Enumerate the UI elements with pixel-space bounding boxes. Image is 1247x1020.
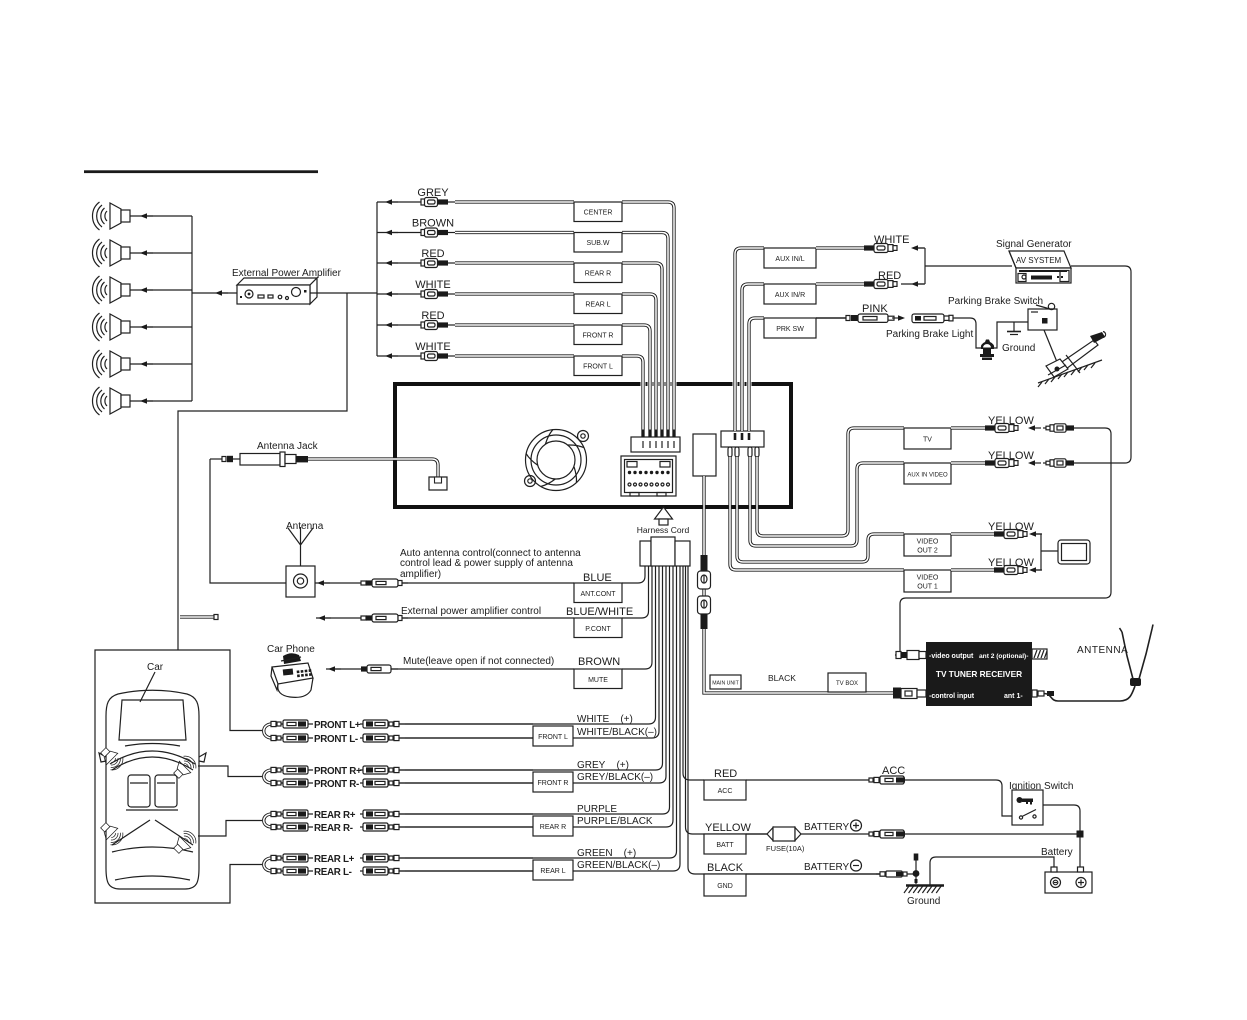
- cable VIDEO OUT 1 box to jack: [951, 568, 994, 571]
- battery: [1045, 867, 1092, 893]
- wire SUB.W branch: [377, 232, 421, 234]
- parking brake switch: [1028, 303, 1057, 330]
- cable REAR R box to head unit: [622, 263, 662, 437]
- harness wire BLACK: [688, 566, 886, 874]
- svg-text:-control input: -control input: [929, 693, 975, 700]
- wire REAR R-: [272, 826, 313, 828]
- connector PRONT L+ right: [363, 720, 405, 728]
- cable head unit to AUX IN VIDEO: [750, 457, 904, 546]
- svg-text:WHITE (+): WHITE (+): [577, 714, 633, 725]
- cable head unit to VIDEO OUT 1: [730, 457, 904, 570]
- RCA jack GREY (CENTER): [421, 198, 455, 207]
- svg-text:ANTENNA: ANTENNA: [1077, 645, 1128, 656]
- plug YELLOW male (TV): [1043, 424, 1074, 432]
- svg-text:External power amplifier contr: External power amplifier control: [401, 606, 541, 617]
- svg-text:BATTERY: BATTERY: [804, 822, 850, 833]
- svg-text:OUT 2: OUT 2: [917, 548, 938, 555]
- wire REAR L-: [272, 870, 313, 872]
- box FRONT R: [533, 772, 573, 792]
- car speaker: [170, 828, 199, 857]
- svg-text:FUSE(10A): FUSE(10A): [766, 844, 805, 853]
- svg-text:GND: GND: [717, 883, 733, 890]
- box REAR L: [533, 860, 573, 880]
- svg-text:FRONT L: FRONT L: [583, 364, 613, 371]
- Parking Brake Light connector: [912, 314, 953, 323]
- svg-text:TV: TV: [923, 437, 932, 444]
- box MUTE: [574, 669, 622, 689]
- arrow BROWN (to car phone): [328, 666, 341, 672]
- arrow AUX R: [911, 281, 924, 287]
- wire AUX L to bus: [915, 247, 925, 249]
- wire ACC: [746, 780, 1012, 816]
- svg-text:Antenna: Antenna: [286, 521, 324, 532]
- speaker 2: [93, 239, 131, 267]
- svg-text:Signal Generator: Signal Generator: [996, 239, 1072, 250]
- svg-text:WHITE: WHITE: [415, 279, 450, 291]
- jack YELLOW (VIDEO OUT 2): [994, 530, 1027, 539]
- connector PRONT R+ left: [271, 766, 308, 774]
- brake lamp bulb: [980, 340, 994, 361]
- svg-text:REAR R-: REAR R-: [314, 823, 353, 834]
- cable FRONT L jack to box: [455, 354, 574, 357]
- harness wire BLUE: [622, 566, 645, 583]
- wire PRONT R+: [272, 769, 313, 771]
- svg-text:BROWN: BROWN: [578, 656, 620, 668]
- cable CENTER box to head unit: [622, 202, 674, 437]
- top rule line: [84, 170, 318, 173]
- antenna jack: [210, 452, 308, 467]
- svg-text:YELLOW: YELLOW: [988, 557, 1034, 569]
- main unit cable port: [693, 434, 716, 476]
- svg-text:CENTER: CENTER: [584, 210, 613, 217]
- svg-text:REAR L: REAR L: [585, 302, 610, 309]
- antenna box: [286, 566, 315, 597]
- wire lamp to switch/ground: [993, 322, 1028, 348]
- arrow OUT2: [1029, 531, 1042, 537]
- RCA jack WHITE (REAR L): [421, 290, 455, 299]
- svg-text:Ground: Ground: [907, 896, 940, 907]
- connector REAR L- right: [363, 867, 405, 875]
- antenna receptacle: [429, 477, 447, 490]
- handbrake lever: [1038, 332, 1106, 388]
- box FRONT R: [574, 325, 622, 345]
- pair curve FRONT R: [264, 770, 272, 783]
- wire crossings over chassis border: [643, 378, 749, 393]
- wire AV SYSTEM loop to AUX IN VIDEO: [1071, 266, 1131, 463]
- harness wire GREEN-: [405, 566, 680, 871]
- svg-text:amplifier): amplifier): [400, 569, 441, 580]
- speaker 6: [93, 387, 131, 415]
- RCA trunk connector block: [631, 430, 680, 453]
- svg-text:AUX IN/R: AUX IN/R: [775, 292, 805, 299]
- wire REAR R+: [272, 813, 313, 815]
- harness cord arrow: [655, 507, 673, 525]
- car speaker: [170, 753, 199, 782]
- box GND: [704, 874, 746, 896]
- wire GND: [746, 873, 916, 875]
- svg-text:PURPLE: PURPLE: [577, 804, 617, 815]
- connector REAR L+ left: [271, 854, 308, 862]
- connector REAR L+ right: [363, 854, 405, 862]
- svg-text:Harness Cord: Harness Cord: [637, 525, 690, 535]
- wire AUX IN/R to head unit: [742, 284, 764, 431]
- car speaker: [97, 819, 126, 848]
- video output plug: [895, 651, 926, 660]
- svg-text:PRONT R-: PRONT R-: [314, 779, 359, 790]
- car wiring enclosure: [95, 650, 262, 903]
- svg-text:ACC: ACC: [718, 788, 733, 795]
- svg-text:FRONT R: FRONT R: [583, 333, 614, 340]
- svg-text:Parking Brake Switch: Parking Brake Switch: [948, 296, 1043, 307]
- svg-text:VIDEO: VIDEO: [917, 575, 939, 582]
- wire speaker 4 to bus: [130, 326, 192, 328]
- ignition switch: [1012, 790, 1043, 825]
- svg-text:PRONT R+: PRONT R+: [314, 766, 362, 777]
- junction dot: [1077, 831, 1084, 838]
- arrow PINK: [892, 315, 905, 321]
- wire jack to antenna box: [210, 459, 286, 583]
- wire PRONT R-: [272, 782, 313, 784]
- wire REAR R branch: [377, 262, 421, 264]
- svg-text:Ground: Ground: [1002, 343, 1035, 354]
- barrel connector B: [698, 596, 711, 614]
- pointer line: [1036, 305, 1050, 309]
- svg-text:GREY/BLACK(–): GREY/BLACK(–): [577, 772, 653, 783]
- svg-text:FRONT L: FRONT L: [538, 734, 568, 741]
- svg-text:External Power Amplifier: External Power Amplifier: [232, 268, 342, 279]
- harness wire PURPLE-: [405, 566, 673, 827]
- wire REAR L+: [272, 857, 313, 859]
- svg-text:YELLOW: YELLOW: [988, 415, 1034, 427]
- svg-text:BLUE/WHITE: BLUE/WHITE: [566, 606, 633, 618]
- svg-text:TV TUNER RECEIVER: TV TUNER RECEIVER: [936, 669, 1022, 679]
- jack RED (AUX IN/R): [864, 280, 897, 289]
- cable head unit to VIDEO OUT 2: [737, 457, 904, 562]
- cable REAR R jack to box: [455, 261, 574, 264]
- svg-text:TV BOX: TV BOX: [836, 681, 858, 687]
- wire bus to amplifier: [192, 292, 237, 294]
- svg-text:ACC: ACC: [882, 765, 905, 777]
- wire PRONT L+: [272, 723, 313, 725]
- connector REAR R+ left: [271, 810, 308, 818]
- cable AUX IN/L to jack: [816, 246, 864, 249]
- cable FRONT R jack to box: [455, 323, 574, 326]
- wire AUX R to bus: [901, 283, 925, 285]
- RCA bus vertical: [376, 202, 378, 356]
- speaker 3: [93, 276, 131, 304]
- wire ignition to battery +: [1043, 805, 1080, 868]
- connector BLUE: [361, 579, 408, 587]
- box MAIN UNIT: [710, 675, 741, 689]
- box TV BOX: [828, 673, 866, 692]
- ground bar (switch): [1007, 322, 1021, 335]
- PINK connector: [846, 314, 894, 322]
- arrow OUT1: [1029, 567, 1042, 573]
- wire BLUE/WHITE left: [316, 617, 574, 619]
- svg-text:VIDEO: VIDEO: [917, 539, 939, 546]
- harness wire BROWN: [622, 566, 652, 669]
- svg-text:WHITE/BLACK(–): WHITE/BLACK(–): [577, 727, 657, 738]
- cable sleeve 2: [701, 614, 708, 629]
- head unit chassis: [395, 384, 791, 507]
- svg-text:ant 1-: ant 1-: [1004, 693, 1023, 700]
- car phone: [271, 653, 313, 697]
- speaker 1: [93, 202, 131, 230]
- RCA jack WHITE (FRONT L): [421, 352, 455, 361]
- svg-text:REAR L+: REAR L+: [314, 854, 355, 865]
- connector GND: [876, 871, 907, 877]
- box REAR R: [574, 263, 622, 283]
- svg-text:AUX IN/L: AUX IN/L: [775, 256, 804, 263]
- jack YELLOW (AUX IN VIDEO): [985, 459, 1018, 468]
- ISO 16-pin connector: [621, 456, 676, 496]
- box PRK SW: [764, 318, 816, 338]
- cable SUB.W jack to box: [455, 231, 574, 234]
- wire fuse to battery: [801, 833, 1080, 835]
- connector REAR R- right: [363, 823, 405, 831]
- RCA jack RED (FRONT R): [421, 321, 455, 330]
- harness wire WHITE+: [405, 566, 656, 724]
- box AUX IN VIDEO: [904, 463, 951, 484]
- svg-text:OUT 1: OUT 1: [917, 584, 938, 591]
- ground symbol: [904, 886, 944, 894]
- cable head unit to TV: [757, 428, 904, 536]
- svg-text:BLUE: BLUE: [583, 572, 612, 584]
- wire BROWN left: [326, 668, 574, 670]
- stub front-right speaker: [198, 766, 262, 777]
- wire CENTER branch: [377, 201, 421, 203]
- box CENTER: [574, 202, 622, 222]
- monitor: [1058, 540, 1090, 564]
- speaker 4: [93, 313, 131, 341]
- cable FRONT R box to head unit: [622, 325, 650, 437]
- svg-text:GREEN (+): GREEN (+): [577, 848, 636, 859]
- box TV: [904, 428, 951, 449]
- speaker bus wire: [191, 216, 193, 401]
- svg-text:RED: RED: [421, 248, 444, 260]
- svg-text:PRONT L+: PRONT L+: [314, 720, 361, 731]
- box P.CONT: [574, 618, 622, 638]
- svg-text:REAR R: REAR R: [540, 824, 566, 831]
- svg-text:SUB.W: SUB.W: [587, 240, 610, 247]
- antenna mast: [288, 527, 313, 566]
- connector PRONT R- right: [363, 779, 405, 787]
- svg-text:REAR L-: REAR L-: [314, 867, 352, 878]
- svg-text:GREY: GREY: [417, 187, 449, 199]
- External Power Amplifier unit: [237, 278, 317, 304]
- harness wire BLUE/WHITE: [622, 566, 649, 618]
- svg-text:BROWN: BROWN: [412, 218, 454, 230]
- cable TV box to jack: [951, 426, 985, 429]
- connector REAR R+ right: [363, 810, 405, 818]
- AV SYSTEM unit: [1009, 251, 1071, 283]
- box ACC: [704, 780, 746, 800]
- svg-text:BATT: BATT: [716, 842, 734, 849]
- svg-text:PRONT L-: PRONT L-: [314, 734, 358, 745]
- svg-text:RED: RED: [421, 310, 444, 322]
- harness wire GREY-: [405, 566, 666, 783]
- connector REAR R- left: [271, 823, 308, 831]
- box ANT.CONT: [574, 583, 622, 603]
- svg-text:REAR R: REAR R: [585, 271, 611, 278]
- harness wire PURPLE+: [405, 566, 670, 814]
- cooling fan: [525, 430, 589, 491]
- connector BROWN: [361, 665, 398, 673]
- svg-text:Car: Car: [147, 662, 164, 673]
- svg-text:PRK SW: PRK SW: [776, 326, 804, 333]
- RCA jack RED (REAR R): [421, 259, 455, 268]
- wire PRONT L-: [272, 737, 313, 739]
- wire BLUE left: [315, 582, 574, 584]
- box BATT: [704, 834, 746, 854]
- box REAR R: [533, 816, 573, 836]
- cable sleeve 1: [701, 555, 708, 571]
- arrow BLUE/WHITE: [318, 615, 331, 621]
- stub rear-right speaker: [198, 821, 262, 837]
- antenna left arm: [1120, 628, 1134, 679]
- fuse: [767, 827, 801, 841]
- pair curve REAR R: [264, 814, 272, 827]
- cable REAR L box to head unit: [622, 294, 656, 437]
- RCA jack BROWN (SUB.W): [421, 228, 455, 237]
- harness wire GREY+: [405, 566, 663, 770]
- ground bolt: [913, 854, 920, 885]
- svg-text:BLACK: BLACK: [768, 673, 796, 683]
- antenna feed point: [1130, 678, 1141, 686]
- svg-text:-video output: -video output: [929, 653, 974, 660]
- svg-text:PINK: PINK: [862, 303, 888, 315]
- svg-text:MUTE: MUTE: [588, 677, 608, 684]
- svg-text:YELLOW: YELLOW: [988, 521, 1034, 533]
- antenna cable into head unit: [308, 459, 438, 477]
- wire amplifier to RCA bus: [310, 292, 377, 294]
- box FRONT L: [574, 356, 622, 376]
- connector PRONT L- right: [363, 734, 405, 742]
- harness wire RED: [683, 566, 704, 780]
- jack YELLOW (VIDEO OUT 1): [994, 566, 1027, 575]
- cable CENTER jack to box: [455, 200, 574, 203]
- wire to brake lamp: [953, 318, 981, 348]
- svg-text:REAR L: REAR L: [540, 868, 565, 875]
- speaker 5: [93, 350, 131, 378]
- stub wire far left: [180, 615, 214, 618]
- plug YELLOW male (AUX IN VIDEO): [1043, 459, 1074, 467]
- cable VIDEO OUT 2 box to jack: [951, 532, 994, 535]
- jack WHITE (AUX IN/L): [864, 244, 897, 253]
- svg-text:FRONT R: FRONT R: [538, 780, 569, 787]
- arrow BLUE: [317, 580, 330, 586]
- wire amplifier down to car: [178, 293, 347, 650]
- svg-text:control lead & power supply: control lead & power supply of antenna: [400, 558, 573, 569]
- svg-text:Mute(leave open if not connect: Mute(leave open if not connected): [403, 656, 554, 667]
- wire AUX IN/L to head unit: [735, 248, 764, 431]
- svg-text:ANT.CONT: ANT.CONT: [581, 591, 617, 598]
- wire REAR L branch: [377, 293, 421, 295]
- wire bus to AV SYSTEM: [925, 265, 1012, 267]
- connector ACC: [869, 776, 905, 784]
- wire video outs to monitor: [1035, 534, 1058, 570]
- svg-text:AUX IN VIDEO: AUX IN VIDEO: [907, 473, 948, 479]
- ant1 plug: [1032, 690, 1054, 697]
- jack YELLOW (TV): [985, 424, 1018, 433]
- svg-text:GREY (+): GREY (+): [577, 760, 629, 771]
- wire speaker 1 to bus: [130, 215, 192, 217]
- connector PRONT L+ left: [271, 720, 308, 728]
- box FRONT L: [533, 726, 573, 746]
- control input plug: [893, 688, 926, 699]
- connector PRONT R+ right: [363, 766, 405, 774]
- wire FRONT L branch: [377, 355, 421, 357]
- arrow TV: [1028, 425, 1041, 431]
- box REAR L: [574, 294, 622, 314]
- car speaker: [97, 744, 126, 773]
- ant2 connector: [1032, 649, 1047, 659]
- svg-text:ant 2 (optional)-: ant 2 (optional)-: [979, 653, 1028, 660]
- svg-text:GREEN/BLACK(–): GREEN/BLACK(–): [577, 860, 660, 871]
- pair curve REAR L: [264, 858, 272, 871]
- TV TUNER RECEIVER unit: [926, 642, 1032, 706]
- wire speaker 2 to bus: [130, 252, 192, 254]
- wire switch to lever: [1044, 330, 1057, 362]
- svg-text:RED: RED: [878, 270, 901, 282]
- svg-text:RED: RED: [714, 768, 737, 780]
- svg-text:Antenna Jack: Antenna Jack: [257, 441, 319, 452]
- svg-text:MAIN UNIT: MAIN UNIT: [712, 681, 739, 687]
- cable PRK SW to PINK connector: [816, 317, 846, 319]
- box VIDEO OUT 1: [904, 570, 951, 592]
- svg-text:WHITE: WHITE: [874, 234, 909, 246]
- antenna right arm: [1139, 625, 1153, 680]
- cable AUX IN/R to jack: [816, 282, 864, 285]
- box AUX IN/L: [764, 248, 816, 268]
- cable REAR L jack to box: [455, 292, 574, 295]
- connector BLUE/WHITE: [361, 614, 408, 622]
- svg-text:Parking Brake Light: Parking Brake Light: [886, 329, 973, 340]
- wire speaker 5 to bus: [130, 363, 192, 365]
- svg-text:PURPLE/BLACK: PURPLE/BLACK: [577, 816, 653, 827]
- wire battery minus to ground: [930, 857, 1054, 885]
- svg-text:AV SYSTEM: AV SYSTEM: [1016, 256, 1062, 265]
- harness cord connector: [640, 537, 690, 566]
- connector PRONT R- left: [271, 779, 308, 787]
- wire BATT to fuse: [746, 833, 767, 835]
- cable FRONT L box to head unit: [622, 356, 643, 437]
- car body: [99, 690, 206, 889]
- barrel connector A: [698, 571, 711, 589]
- svg-text:Battery: Battery: [1041, 847, 1073, 858]
- pair curve FRONT L: [264, 724, 272, 738]
- box AUX IN/R: [764, 284, 816, 304]
- cable TV male plug to tuner: [900, 428, 1111, 651]
- box SUB.W: [574, 233, 622, 253]
- svg-text:BATTERY: BATTERY: [804, 862, 850, 873]
- arrow AUX VIDEO: [1028, 460, 1041, 466]
- connector PRONT L- left: [271, 734, 308, 742]
- harness wire GREEN+: [405, 566, 677, 858]
- svg-text:REAR R+: REAR R+: [314, 810, 356, 821]
- AV connector block: [721, 431, 764, 457]
- wire speaker 3 to bus: [130, 289, 192, 291]
- connector BATT: [869, 830, 905, 838]
- wire speaker 6 to bus: [130, 400, 192, 402]
- cable AUX IN VIDEO box to jack: [951, 461, 985, 464]
- box VIDEO OUT 2: [904, 534, 951, 556]
- svg-text:YELLOW: YELLOW: [988, 450, 1034, 462]
- svg-text:P.CONT: P.CONT: [585, 626, 611, 633]
- AV bus vertical: [924, 248, 926, 284]
- cable SUB.W box to head unit: [622, 233, 668, 438]
- connector REAR L- left: [271, 867, 308, 875]
